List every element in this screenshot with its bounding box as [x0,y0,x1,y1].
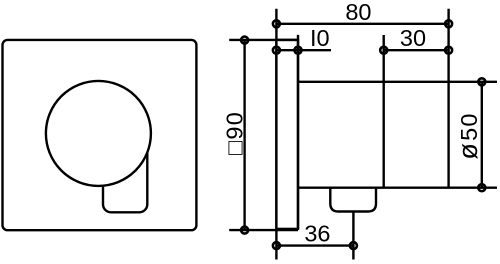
front view square plate [3,40,197,230]
svg-text:36: 36 [304,221,330,247]
dimension 30 left terminal [380,47,387,54]
front view knob circle ø50 [46,81,151,186]
side view plate top edge + sq90 top extension [229,39,298,41]
svg-text:30: 30 [400,25,426,51]
dimension sq90 top terminal [241,37,248,44]
dimension line 30 [384,49,449,51]
front view lever handle [103,145,147,212]
side view plate body [276,40,298,229]
side view plate front edge / extension line x=276 [275,9,277,260]
side view body front face / extension x=448.6 [447,9,449,188]
dimension line 10 [276,49,331,51]
svg-text:□90: □90 [221,111,247,155]
side view body bottom edge + dia50 bottom extension [298,186,497,188]
side view lever center extension [352,212,354,260]
dimension 10 left terminal [273,47,280,54]
dimension 36 left terminal [273,242,280,249]
dimension 30 right terminal [445,47,452,54]
dimension 80 left terminal [273,20,280,27]
side view body top edge + dia50 top extension [298,81,497,83]
svg-text:I0: I0 [310,25,330,51]
dimension 80 right terminal [445,20,452,27]
side view step line / 30 extension x=383.7 [383,35,385,188]
dimension 10 right terminal [295,47,302,54]
dimension line 80 [276,23,448,25]
dimension dia50 top terminal [478,78,485,85]
dimension dia50 bottom terminal [478,184,485,191]
dimension 36 right terminal [350,242,357,249]
dimension line 36 [276,244,353,246]
side view plate bottom edge + sq90 bottom extension [229,229,298,231]
dimension line dia50 [481,82,483,188]
svg-text:80: 80 [345,0,371,25]
side view wall line x=298 [297,35,299,229]
dimension sq90 bottom terminal [241,227,248,234]
dimension line sq90 [243,40,245,230]
svg-text:ø50: ø50 [453,112,483,159]
side view lever handle [330,188,376,212]
